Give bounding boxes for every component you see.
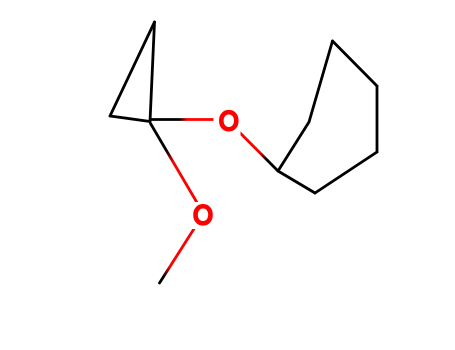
cyclopropane bond B-Ca [110, 116, 150, 122]
cyclohexane bond C-D [333, 41, 378, 86]
cyclohexane bond E-F [315, 152, 377, 193]
knockout for O2 [192, 202, 215, 229]
bond O2-C3 [160, 217, 202, 283]
bond Ca-O1 [152, 118, 224, 121]
knockout for O1 [214, 106, 241, 136]
cyclopropane bond Ca-A [150, 22, 155, 122]
cyclohexane bond C2-B2 [278, 122, 309, 171]
atom O2 [196, 206, 211, 223]
bond O1-C2 [232, 125, 278, 171]
cyclohexane bond D-E [376, 86, 379, 152]
bond Ca-O2 [151, 124, 200, 207]
atom O1 [221, 112, 236, 129]
cyclopropane bond A-B [110, 22, 155, 116]
cyclohexane bond F-C2 [278, 171, 315, 193]
cyclohexane bond B2-C [309, 41, 333, 122]
